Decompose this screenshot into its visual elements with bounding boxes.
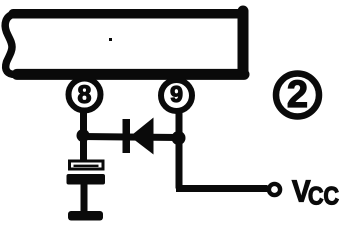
- capacitor C1 top plate inner dash: [74, 165, 99, 167]
- wire corner to Vcc terminal: [176, 185, 268, 192]
- svg-text:8: 8: [78, 81, 92, 109]
- wire node B down to corner: [176, 138, 183, 189]
- pin 9 circle: [161, 80, 192, 111]
- wire node A to node B (diode rail): [83, 137, 178, 138]
- IC body (broken-edge outline): [5, 11, 244, 75]
- figure number 2 circle: [276, 74, 319, 117]
- node A junction dot: [77, 129, 90, 142]
- wire pin9 to node B: [176, 111, 183, 138]
- svg-text:2: 2: [287, 74, 308, 116]
- svg-text:9: 9: [170, 81, 183, 107]
- wire pin8 to node A: [80, 111, 87, 161]
- svg-text:CC: CC: [308, 183, 339, 211]
- wire capacitor to ground: [81, 184, 88, 214]
- speck inside IC body: [109, 38, 112, 41]
- diode CR1 cathode bar: [123, 119, 131, 153]
- Vcc terminal (open circle): [269, 184, 280, 195]
- ground bar: [68, 211, 103, 221]
- pin 8 circle: [69, 79, 101, 111]
- capacitor C1 bottom plate (solid): [67, 174, 106, 185]
- node B junction dot: [172, 131, 186, 145]
- capacitor C1 top plate (hollow): [70, 161, 104, 169]
- diode CR1 anode triangle: [130, 118, 154, 155]
